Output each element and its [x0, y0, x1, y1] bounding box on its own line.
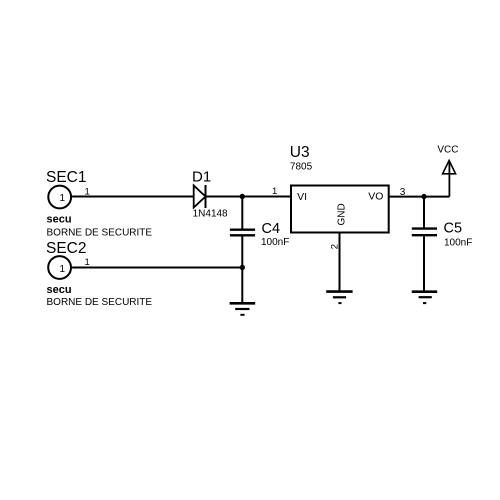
svg-text:U3: U3 — [290, 144, 310, 161]
svg-text:VO: VO — [368, 191, 383, 203]
svg-text:BORNE DE SECURITE: BORNE DE SECURITE — [47, 228, 153, 239]
svg-text:secu: secu — [47, 214, 72, 226]
svg-text:SEC1: SEC1 — [46, 169, 87, 186]
svg-text:VI: VI — [297, 191, 307, 203]
svg-text:3: 3 — [400, 187, 406, 198]
svg-text:C4: C4 — [262, 221, 281, 237]
svg-text:VCC: VCC — [437, 145, 458, 156]
svg-text:100nF: 100nF — [444, 238, 472, 249]
svg-text:1: 1 — [60, 193, 66, 204]
svg-text:100nF: 100nF — [261, 237, 289, 248]
svg-text:1: 1 — [60, 264, 66, 275]
svg-text:C5: C5 — [444, 220, 463, 236]
svg-text:D1: D1 — [192, 169, 211, 186]
svg-text:2: 2 — [329, 244, 340, 249]
svg-text:GND: GND — [337, 203, 348, 225]
svg-text:BORNE DE SECURITE: BORNE DE SECURITE — [47, 297, 153, 308]
svg-text:1: 1 — [85, 257, 90, 268]
svg-text:1N4148: 1N4148 — [193, 209, 228, 220]
svg-text:1: 1 — [272, 186, 277, 197]
svg-text:secu: secu — [47, 284, 72, 296]
svg-text:1: 1 — [85, 187, 90, 198]
svg-text:7805: 7805 — [290, 162, 313, 173]
svg-text:SEC2: SEC2 — [46, 240, 87, 257]
